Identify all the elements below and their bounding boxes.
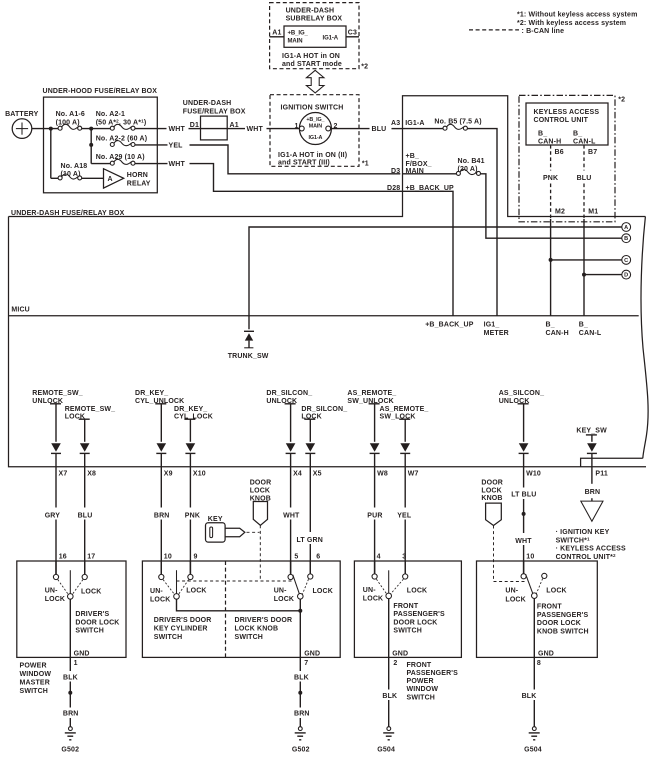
svg-text:WHT: WHT [169,126,186,133]
wire AS_REMOTE_SW_LOCK [404,419,406,442]
AS_REMOTE_SW_LOCK output arrow [400,443,410,453]
wire YEL W7 to passenger lock switch pin 3 [404,453,406,507]
svg-text:UNDER-DASH: UNDER-DASH [286,7,335,14]
svg-text:SWITCH: SWITCH [393,628,422,635]
svg-text:1: 1 [74,660,78,667]
svg-text:KNOB: KNOB [481,495,502,502]
svg-text:BRN: BRN [585,489,601,496]
svg-text:W7: W7 [408,471,419,478]
wire subrelay C3 [346,36,359,38]
svg-text:SWITCH: SWITCH [154,634,183,641]
svg-text:FRONT: FRONT [393,603,418,610]
svg-text:BRN: BRN [63,710,79,717]
svg-text:M1: M1 [588,209,598,216]
svg-text:GND: GND [538,651,554,658]
wire pin17 into switch [84,561,86,574]
svg-text:LOCK: LOCK [363,595,383,602]
wire A1 out [227,128,245,130]
svg-text:METER: METER [484,330,509,337]
svg-text:CONTROL UNIT*2: CONTROL UNIT*2 [556,553,616,561]
wire AS_REMOTE_SW_UNLOCK [374,404,376,442]
fuse B5 [443,124,467,130]
svg-text:16: 16 [59,554,67,561]
under-dash fuse/relay box left and bottom edge [9,217,647,467]
wire pin9 into key cyl switch [189,561,191,574]
svg-text:SWITCH: SWITCH [407,694,436,701]
wire PNK X10 to key cylinder switch pin 9 [189,453,191,507]
pole (driver lock sw) [68,594,74,600]
driver door lock knob symbol [253,502,267,526]
keyless access control unit U1 [526,103,608,145]
knob linkage dashed vertical (driver) [259,525,261,581]
pole (as lock sw) [386,593,392,599]
splice BLK to BRN (key cyl) [298,691,302,695]
svg-text:1: 1 [294,123,298,130]
svg-text:SWITCH: SWITCH [20,688,49,695]
contact LOCK (driver lock sw) [82,574,87,579]
REMOTE_SW_UNLOCK output arrow [51,443,61,453]
svg-text:B7: B7 [588,149,597,156]
svg-text:B_: B_ [579,322,588,329]
key linkage dashed [247,531,260,533]
wire fuse B41 to connector B [480,174,622,238]
node C off-page connector [622,256,631,265]
svg-text:LOCK: LOCK [481,488,501,495]
svg-text:B: B [624,236,628,242]
node A2-2 junction [89,143,93,147]
svg-text:UNDER-HOOD FUSE/RELAY BOX: UNDER-HOOD FUSE/RELAY BOX [43,88,158,95]
wire BRN P11 to key switch note [591,453,593,483]
REMOTE_SW_LOCK output arrow [80,443,90,453]
svg-text:BRN: BRN [294,710,310,717]
svg-text:IGNITION SWITCH: IGNITION SWITCH [281,105,344,112]
wire BLU X8 to door lock switch pin 17 [84,453,86,507]
svg-text:BLK: BLK [382,693,397,700]
wire to fuse A18 [51,177,58,179]
svg-text:RELAY: RELAY [127,180,151,187]
wire REMOTE_SW_UNLOCK [55,404,57,442]
svg-text:IG1_: IG1_ [484,322,500,329]
svg-text:UN-: UN- [363,587,376,594]
REMOTE_SW_UNLOCK leader [50,403,61,405]
link arrow subrelay-ignition [306,70,324,93]
wire subrelay A1 [270,36,284,38]
wire B-CAN-H dashed lower [550,184,552,220]
wire pin6 into knob switch [309,561,311,574]
wire to TRUNK_SW and connector A [249,227,622,329]
svg-text:DOOR LOCK: DOOR LOCK [75,619,119,626]
contact UNLOCK (as lock sw) [372,574,377,579]
dashed throw to LOCK [72,580,83,595]
svg-text:DR_SILCON_: DR_SILCON_ [266,390,312,397]
wire BRN X9 to key cylinder switch pin 10 [160,453,162,507]
passenger knob switch lever [526,574,533,593]
node B off-page connector [622,234,631,243]
ground G504 (as lock) [383,727,394,740]
svg-text:DRIVER'S: DRIVER'S [75,611,109,618]
wire pin10 into knob switch [523,561,525,574]
svg-text:IG1-A: IG1-A [308,135,322,141]
dashed throw to LOCK (as lock sw) [391,579,404,594]
svg-text:10: 10 [526,554,534,561]
svg-text:G504: G504 [524,746,542,753]
svg-text:KNOB SWITCH: KNOB SWITCH [537,629,589,636]
wire WHT to D28 +B_BACK_UP [190,164,454,316]
svg-text:X7: X7 [59,471,68,478]
svg-text:+B_IG_: +B_IG_ [306,117,325,123]
svg-text:BLU: BLU [78,512,93,519]
node key-cyl/knob pole junction [298,609,302,613]
svg-text:MASTER: MASTER [20,680,50,687]
wire B-CAN-L dashed upper [583,145,585,171]
svg-text:GRY: GRY [45,512,61,519]
front passenger's door lock switch box [354,561,461,657]
svg-text:+B_IG_: +B_IG_ [288,31,309,37]
DR_KEY_CYL_LOCK leader [184,418,195,420]
svg-text:M2: M2 [555,209,565,216]
passenger door lock knob symbol [486,503,502,525]
wire BLU to A3 [392,128,403,130]
svg-text:UNDER-DASH FUSE/RELAY BOX: UNDER-DASH FUSE/RELAY BOX [11,210,125,217]
under-dash fuse/relay box bottom step notch [581,458,643,467]
svg-text:MICU: MICU [11,307,30,314]
wire fuse A2-1 out (WHT) [135,128,167,130]
svg-text:X9: X9 [164,471,173,478]
svg-text:G504: G504 [377,746,395,753]
legend B-CAN dashed line sample [469,29,519,31]
svg-text:WHT: WHT [283,512,300,519]
subrelay relay block [284,26,346,47]
svg-text:MAIN: MAIN [309,123,323,129]
AS_REMOTE_SW_UNLOCK leader [369,403,380,405]
AS_SILCON_UNLOCK output arrow [519,443,529,453]
driver knob switch lever [293,575,300,594]
svg-text:C: C [624,258,628,264]
svg-text:17: 17 [87,554,95,561]
svg-text:G502: G502 [61,746,79,753]
svg-text:UN-: UN- [150,588,163,595]
svg-text:7: 7 [304,660,308,667]
dashed throw to LOCK (driver knob sw) [302,579,308,594]
svg-text:LOCK: LOCK [505,597,525,604]
wire battery junction down to fuse A18 [50,129,52,179]
svg-text:WHT: WHT [169,161,186,168]
wire WHT into D1 [189,128,201,130]
svg-text:6: 6 [316,554,320,561]
svg-text:GND: GND [392,651,408,658]
svg-text:D: D [624,273,628,279]
wire WHT X4 to knob switch pin 5 [290,453,292,507]
svg-text:WINDOW: WINDOW [20,671,52,678]
svg-text:A3: A3 [391,120,400,127]
wire fuse A29 out (WHT) [135,163,168,165]
fuse A2-2 [110,141,135,147]
TRUNK_SW terminal tick [244,347,253,349]
wire pin3 into switch [404,561,406,574]
svg-text:X5: X5 [313,471,322,478]
ground G504 (as knob) [529,727,540,740]
svg-text:WHT: WHT [515,538,532,545]
svg-text:CAN-L: CAN-L [573,138,596,145]
wire WHT to ignition switch pin 1 [267,128,300,130]
svg-text:CAN-L: CAN-L [579,330,602,337]
driver's key cylinder & knob switch box [142,561,340,657]
wire DR_KEY_CYL_UNLOCK [160,404,162,442]
svg-text:DR_KEY_: DR_KEY_ [135,390,168,397]
splice BLK to BRN (driver) [68,691,72,695]
svg-text:B_: B_ [538,131,547,138]
wire DR_SILCON_LOCK [309,419,311,442]
KEY_SW output arrow [587,443,597,453]
node battery feed junction [49,127,53,131]
wire KEY_SW [591,435,593,442]
svg-text:IG1-A: IG1-A [405,120,424,127]
KEY_SW leader [586,434,597,436]
driver lock switch lever [69,570,71,593]
wire through connector [201,128,228,130]
svg-text:POWER: POWER [20,662,47,669]
svg-text:W10: W10 [526,471,541,478]
svg-text:DOOR LOCK: DOOR LOCK [537,620,581,627]
wire key cyl pole to knob pole [177,599,301,611]
DR_SILCON_UNLOCK leader [285,403,296,405]
svg-text:LOCK: LOCK [45,596,65,603]
svg-text:WHT: WHT [247,126,264,133]
svg-text:C3: C3 [348,29,357,36]
under-dash fuse/relay box connector D1-A1 [201,116,228,140]
svg-text:P11: P11 [595,471,608,478]
svg-text:LOCK: LOCK [274,596,294,603]
svg-text:BLU: BLU [577,175,592,182]
node A2 branch junction [89,127,93,131]
svg-text:DRIVER'S DOOR: DRIVER'S DOOR [154,617,212,624]
contact LOCK (as lock sw) [403,574,408,579]
svg-text:KEY: KEY [208,516,223,523]
svg-text:LOCK: LOCK [250,488,270,495]
svg-text:X4: X4 [293,471,302,478]
svg-text:FUSE/RELAY BOX: FUSE/RELAY BOX [183,108,246,115]
svg-text:GND: GND [74,651,90,658]
svg-text:REMOTE_SW_: REMOTE_SW_ [65,406,116,413]
svg-text:SWITCH: SWITCH [75,628,104,635]
svg-text:UNDER-DASH: UNDER-DASH [183,100,232,107]
AS_SILCON_UNLOCK leader [518,403,529,405]
svg-text:+B_BACK_UP: +B_BACK_UP [425,322,474,329]
svg-text:No. A2-2 (60 A): No. A2-2 (60 A) [96,135,148,142]
dashed throw to LOCK (as knob sw) [536,579,542,594]
svg-text:· IGNITION KEY: · IGNITION KEY [556,529,610,536]
svg-text:SWITCH*1: SWITCH*1 [556,536,590,544]
wire YEL to D3 [190,145,401,174]
wire battery to fuse A1-6 [32,128,58,130]
svg-text:A1: A1 [272,29,281,36]
wire B-CAN-L dashed lower [583,184,585,220]
svg-text:UN-: UN- [274,587,287,594]
svg-text:HORN: HORN [127,172,148,179]
svg-text:DOOR: DOOR [481,480,503,487]
DR_KEY_CYL_UNLOCK leader [155,403,166,405]
svg-text:4: 4 [377,554,381,561]
wire pin10 into key cyl switch [160,561,162,574]
splice LT BLU to WHT [522,512,526,516]
svg-text:PASSENGER'S: PASSENGER'S [393,611,445,618]
svg-text:LT BLU: LT BLU [511,492,536,499]
wire to connector D [584,274,622,276]
horn relay [104,169,124,188]
svg-text:LOCK: LOCK [313,588,333,595]
wire pin5 into knob switch [290,561,292,574]
contact UNLOCK (driver lock sw) [53,574,58,579]
svg-text:DOOR: DOOR [250,479,272,486]
driver's door lock switch box [17,561,126,657]
svg-text:No. B5 (7.5 A): No. B5 (7.5 A) [434,118,481,125]
svg-text:+B_BACK_UP: +B_BACK_UP [406,185,455,192]
wire PUR W8 to passenger lock switch pin 4 [374,453,376,507]
svg-text:W8: W8 [377,471,388,478]
wire to connector C [551,259,622,261]
svg-text:LOCK: LOCK [81,588,101,595]
contact UNLOCK (as knob sw) [521,574,526,579]
dashed divider key-cyl / knob switch [225,561,227,657]
svg-text:LOCK KNOB: LOCK KNOB [235,625,279,632]
ignition switch SW1 rotor [299,113,331,145]
svg-text:BLK: BLK [294,674,309,681]
passenger lock switch lever [388,570,390,593]
svg-text:8: 8 [537,660,541,667]
svg-text:PNK: PNK [543,175,558,182]
contact UNLOCK (key cyl) [159,574,164,579]
node D junction [582,273,586,277]
svg-text:F/BOX_: F/BOX_ [406,161,432,168]
DR_KEY_CYL_LOCK output arrow [185,443,195,453]
svg-text:X10: X10 [193,471,206,478]
svg-text:B_: B_ [573,131,582,138]
svg-text:No. B41: No. B41 [458,158,485,165]
svg-text:10: 10 [164,554,172,561]
svg-text:PASSENGER'S: PASSENGER'S [407,670,459,677]
under-dash fuse/relay box torn right edge [641,217,648,459]
wire BRN to note triangle [591,498,593,501]
node C junction [549,258,553,262]
wire LT BLU/WHT W10 to passenger knob switch pin 10 [523,453,525,487]
svg-text:*1: Without keyless access sys: *1: Without keyless access system [517,12,637,19]
contact UNLOCK (driver knob sw) [288,574,293,579]
wire TRUNK_SW stub [248,341,250,348]
svg-text:BATTERY: BATTERY [5,111,39,118]
REMOTE_SW_LOCK leader [79,418,90,420]
wire REMOTE_SW_LOCK [84,419,86,442]
svg-text:and START (III): and START (III) [278,160,330,167]
contact LOCK (as knob sw) [542,573,547,578]
DR_SILCON_UNLOCK output arrow [286,443,296,453]
svg-text:DR_SILCON_: DR_SILCON_ [301,406,347,413]
AS_REMOTE_SW_UNLOCK output arrow [370,443,380,453]
svg-text:REMOTE_SW_: REMOTE_SW_ [32,390,83,397]
fuse A29 [110,159,135,165]
svg-text:: B-CAN line: : B-CAN line [522,28,565,35]
wire GND pin7 BLK/BRN to G502 [299,599,301,671]
svg-text:PASSENGER'S: PASSENGER'S [537,612,589,619]
svg-text:AS_REMOTE_: AS_REMOTE_ [347,390,396,397]
svg-text:*2: *2 [618,97,625,104]
svg-text:· KEYLESS ACCESS: · KEYLESS ACCESS [556,546,626,553]
svg-text:A: A [624,225,628,231]
AS_REMOTE_SW_LOCK leader [399,418,410,420]
svg-text:UN-: UN- [505,588,518,595]
svg-text:9: 9 [194,554,198,561]
wire fuse A2-2 out (YEL) [135,144,168,146]
svg-text:SWITCH: SWITCH [235,634,264,641]
svg-text:5: 5 [294,554,298,561]
svg-text:AS_SILCON_: AS_SILCON_ [499,390,544,397]
wire fuse A1-6 to fuse A2-1 [82,128,111,130]
wire A2 branch down [90,129,92,164]
fuse A18 [58,174,82,180]
wire B-CAN-H dashed upper [550,145,552,171]
key symbol [206,523,245,542]
MICU boundary line [9,315,639,317]
DR_SILCON_LOCK leader [304,418,315,420]
wire B_CAN-H to MICU [550,219,552,316]
svg-text:LT GRN: LT GRN [297,537,323,544]
svg-text:DRIVER'S DOOR: DRIVER'S DOOR [235,617,293,624]
wire fuse B5 to MICU IG1_METER [467,129,497,316]
linkage dashed horizontal key-cyl to knob switch [177,580,292,582]
svg-text:CONTROL UNIT: CONTROL UNIT [534,117,589,124]
wire pin4 into switch [374,561,376,574]
wire to fuse A29 [91,163,110,165]
destination triangle (to ignition key switch / keyless unit) [581,501,603,521]
dashed throw to UNLOCK (as lock sw) [376,579,386,594]
svg-text:BLU: BLU [372,126,387,133]
svg-text:D3: D3 [391,168,400,175]
key cylinder switch lever [176,570,178,593]
svg-text:CAN-H: CAN-H [546,330,569,337]
wire GRY X7 to door lock switch pin 16 [55,453,57,507]
svg-text:No. A1-6: No. A1-6 [56,111,85,118]
svg-text:WINDOW: WINDOW [407,686,439,693]
under-hood fuse/relay box [44,97,158,193]
wire ignition pin2 out (BLU) [331,128,369,130]
fuse B41 [456,169,480,175]
svg-text:LOCK: LOCK [546,588,566,595]
contact LOCK (driver knob sw) [308,574,313,579]
wire AS_SILCON_UNLOCK [523,404,525,442]
svg-text:3: 3 [402,554,406,561]
svg-text:BLK: BLK [63,674,78,681]
svg-text:*2: With keyless access system: *2: With keyless access system [517,20,626,27]
fuse A1-6 [58,124,82,130]
DR_KEY_CYL_UNLOCK output arrow [156,443,166,453]
svg-text:PUR: PUR [367,512,382,519]
node A off-page connector [622,223,631,232]
svg-text:No. A18: No. A18 [61,163,88,170]
svg-text:LOCK: LOCK [407,588,427,595]
pole (key cyl) [174,594,180,600]
svg-text:2: 2 [393,660,397,667]
pole (driver knob sw) [298,594,304,600]
front passenger's door lock knob switch box [477,561,598,657]
battery G1 symbol [12,119,32,139]
svg-text:BRN: BRN [154,512,170,519]
svg-text:No. A2-1: No. A2-1 [96,111,125,118]
under-dash fuse/relay box top boundary [9,96,646,217]
svg-text:AS_REMOTE_: AS_REMOTE_ [380,406,429,413]
svg-text:KEY_SW: KEY_SW [576,427,607,434]
svg-text:B6: B6 [555,149,564,156]
svg-text:*1: *1 [362,160,369,167]
wire DR_SILCON_UNLOCK [290,404,292,442]
